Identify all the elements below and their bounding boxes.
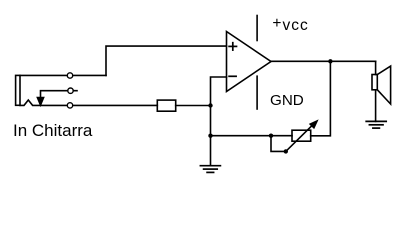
wire speaker to ground	[375, 90, 377, 122]
svg-text:In Chitarra: In Chitarra	[13, 121, 93, 140]
node C junction	[328, 59, 332, 63]
potentiometer P1 wiper arrow	[286, 125, 313, 151]
jack J1 ring contact arrow	[37, 98, 43, 105]
ground GND2	[366, 121, 386, 128]
jack J1 sleeve terminal	[67, 103, 72, 108]
wire tip riser to op-amp non-inverting input	[106, 46, 227, 75]
wire output	[271, 60, 376, 62]
svg-text:GND: GND	[270, 92, 304, 109]
svg-text:+vcc: +vcc	[272, 15, 308, 34]
wire sleeve line with spring contact	[20, 100, 157, 105]
wire ring lead	[41, 91, 78, 98]
node A junction	[208, 103, 212, 107]
wire resistor to node A	[176, 105, 211, 107]
resistor R1	[157, 100, 175, 111]
speaker LS1	[372, 75, 377, 90]
jack J1 ring terminal	[68, 88, 73, 93]
wire tip line	[20, 74, 106, 76]
wire wiper tie	[271, 136, 286, 152]
potentiometer P1	[292, 130, 311, 141]
op-amp U1 negative supply pin	[256, 76, 258, 109]
node D junction	[269, 134, 273, 138]
op-amp U1	[227, 32, 272, 92]
op-amp U1 minus marking	[229, 75, 236, 77]
wire node B to potentiometer	[211, 135, 293, 137]
jack J1 body	[16, 75, 20, 105]
wire output to speaker	[375, 61, 377, 74]
jack J1 tip terminal	[67, 73, 72, 78]
wire feedback drop	[311, 61, 331, 136]
wire inverting column	[211, 77, 227, 166]
node E junction	[284, 149, 288, 153]
node B junction	[208, 134, 212, 138]
op-amp U1 positive supply pin	[256, 16, 258, 41]
op-amp U1 plus marking	[229, 43, 236, 50]
ground GND1	[200, 166, 220, 173]
